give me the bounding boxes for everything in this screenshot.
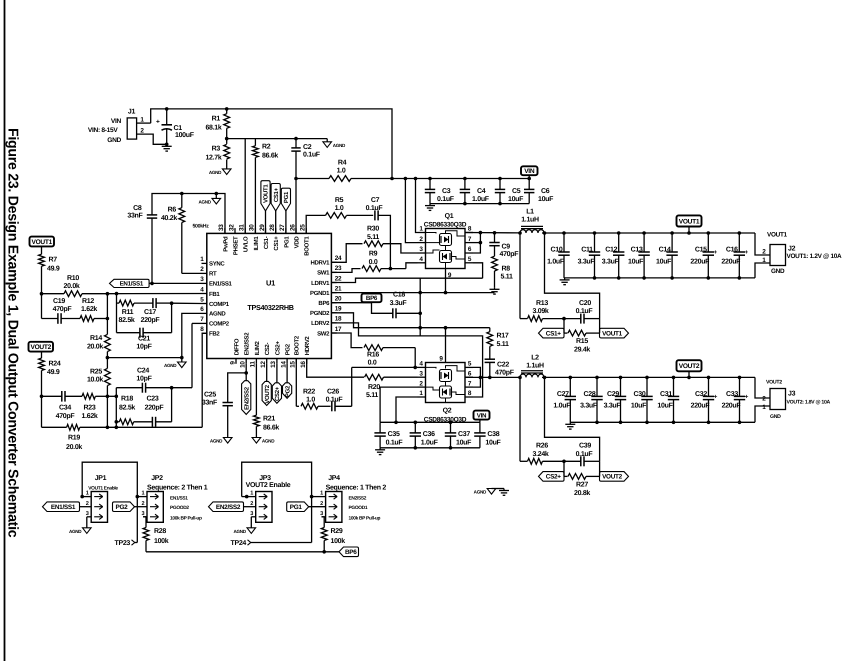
svg-text:C22: C22 (497, 362, 509, 369)
svg-text:VIN: VIN (477, 412, 487, 419)
AGND at C25 (223, 438, 232, 444)
capacitor C2 0.1uF (295, 139, 297, 148)
svg-text:29.4k: 29.4k (574, 346, 590, 354)
svg-text:AGND: AGND (209, 170, 222, 175)
svg-text:C11: C11 (581, 247, 593, 254)
svg-text:0.0: 0.0 (368, 360, 377, 367)
svg-text:33nF: 33nF (127, 213, 143, 220)
svg-text:PGOOD1: PGOOD1 (349, 505, 368, 511)
wire EN1/SS1 to pin3 (149, 282, 201, 284)
svg-text:1.1uH: 1.1uH (521, 217, 539, 224)
label BP6 (362, 294, 382, 303)
svg-text:R8: R8 (502, 265, 511, 272)
U1 pin 13 CS2+ (276, 359, 278, 364)
svg-text:C29: C29 (607, 391, 619, 398)
svg-text:C16: C16 (726, 247, 738, 254)
svg-text:R28: R28 (154, 528, 166, 535)
wire divider to comp2 side (107, 395, 116, 397)
svg-text:VOUT2: VOUT2 (31, 344, 52, 351)
svg-text:R9: R9 (369, 251, 378, 258)
AGND arrow on top net (215, 194, 217, 199)
AGND at R21 (252, 438, 261, 444)
svg-text:20: 20 (335, 296, 342, 303)
svg-text:CS2-: CS2- (264, 343, 271, 356)
capacitor C19 470pF (57, 313, 59, 324)
node C25 branch (244, 371, 248, 375)
svg-text:470pF: 470pF (495, 370, 515, 377)
svg-text:10: 10 (240, 361, 247, 368)
node R29 bottom (322, 550, 326, 554)
svg-text:20.0k: 20.0k (66, 443, 82, 451)
wire FB1 node riser (106, 294, 108, 319)
node C5 (498, 177, 502, 181)
svg-text:0.1uF: 0.1uF (576, 308, 594, 315)
svg-text:R15: R15 (576, 338, 588, 345)
svg-text:5.11: 5.11 (501, 273, 513, 280)
JP2 pin 3 (143, 516, 147, 518)
flag PG1 to PG1 (285, 211, 287, 234)
U1 pin 6 AGND (202, 312, 207, 314)
wire SW1 output row (465, 232, 520, 234)
svg-text:Sequence: 2 Then 1: Sequence: 2 Then 1 (147, 483, 208, 491)
U1 pin 3 EN1/SS1 (202, 282, 207, 284)
wire CS1+ stub (563, 319, 565, 334)
wire AGND pin6 branch (182, 313, 202, 357)
svg-text:C36: C36 (423, 431, 435, 438)
svg-text:2: 2 (141, 501, 144, 507)
flag VOUT1 to CS1- (265, 211, 267, 234)
svg-text:C21: C21 (138, 336, 150, 343)
svg-text:BP6: BP6 (345, 549, 357, 556)
wire R30 to Q1 pin3 (383, 244, 418, 253)
capacitor C14 10uF (670, 231, 674, 235)
capacitor C37 10uF (449, 421, 453, 425)
svg-text:220uF: 220uF (690, 258, 710, 265)
flag PG1 at JP4 (287, 502, 309, 512)
JP4 pin 2 (309, 506, 326, 508)
wire R20 to Q2 pin3 (384, 376, 418, 378)
svg-text:23: 23 (335, 265, 342, 272)
wire AGND row (107, 357, 181, 359)
wire BOOT2 riser (295, 359, 297, 407)
svg-text:1: 1 (250, 491, 253, 497)
connector J1 (127, 118, 136, 139)
svg-text:86.6k: 86.6k (263, 423, 279, 431)
svg-text:1: 1 (86, 491, 89, 497)
wire R9 to Q1 pin4 (381, 268, 406, 270)
svg-text:220uF: 220uF (722, 403, 742, 410)
AGND arrow mid (181, 358, 183, 362)
svg-text:470pF: 470pF (56, 413, 76, 420)
wire LDRV1 to source row (331, 278, 482, 282)
wire BOOT1 riser (306, 215, 325, 233)
svg-text:0.1uF: 0.1uF (366, 205, 384, 212)
svg-text:JP2: JP2 (151, 475, 163, 482)
U1 pin 4 FB1 (202, 293, 207, 295)
svg-text:Sequence: 1 Then 2: Sequence: 1 Then 2 (326, 483, 387, 491)
svg-text:220pF: 220pF (145, 404, 165, 411)
svg-text:18: 18 (335, 316, 342, 323)
wire rail to VIN caps (351, 178, 531, 180)
node L2 left (518, 376, 522, 380)
U1 pin 10 EN2/SS2 (245, 359, 247, 364)
svg-text:5.11: 5.11 (497, 341, 509, 348)
resistor R23 1.62k (65, 395, 82, 397)
node SW2 out (479, 376, 483, 380)
svg-text:R22: R22 (303, 389, 315, 396)
JP3 pin 3 (251, 516, 255, 518)
svg-text:5.11: 5.11 (367, 234, 379, 241)
wire LDRV2 row (331, 323, 482, 397)
wire gnd rail2 to J3 pin1 (755, 406, 770, 422)
resistor R2 86.6k (254, 139, 256, 146)
svg-text:GND: GND (770, 414, 781, 420)
AGND at C2 (323, 142, 332, 148)
resistor R8 5.11 (492, 256, 498, 271)
svg-text:11: 11 (250, 361, 257, 368)
svg-text:R16: R16 (367, 352, 379, 359)
U1 pin 33 PwPd (224, 228, 226, 233)
svg-text:BP6: BP6 (318, 300, 330, 307)
svg-text:10uF: 10uF (538, 196, 554, 203)
svg-text:1.0: 1.0 (335, 205, 344, 212)
svg-text:1.62k: 1.62k (81, 412, 97, 420)
resistor R9 0.0 (362, 266, 381, 272)
svg-text:R5: R5 (335, 197, 344, 204)
wire R4 rail (296, 178, 329, 180)
wire UVLO net (227, 138, 296, 140)
svg-text:CS2+: CS2+ (274, 341, 281, 356)
svg-text:PGND2: PGND2 (310, 310, 330, 317)
svg-text:FB2: FB2 (209, 331, 220, 338)
label VIN at Q2 (479, 420, 481, 423)
U1 pin 14 PG2 (286, 359, 288, 364)
wire Q1 pin9 down (445, 269, 447, 293)
ground at C1 (166, 144, 168, 146)
node C2 top (294, 137, 298, 141)
svg-text:3: 3 (320, 511, 323, 517)
wire BP6 pin20 (331, 302, 371, 304)
svg-text:13: 13 (270, 361, 277, 368)
svg-text:VIN: VIN (111, 118, 122, 125)
svg-text:CSD86330Q3D: CSD86330Q3D (424, 222, 467, 229)
capacitor C30 10uF (645, 376, 649, 380)
AGND to PGND net tie (492, 488, 505, 490)
svg-text:C38: C38 (487, 431, 499, 438)
node C2-VDD-R4 (294, 177, 298, 181)
node PGND2 Q2 pin9 (444, 326, 448, 330)
wire R5-C7 (347, 214, 374, 216)
svg-text:3.3uF: 3.3uF (390, 300, 408, 307)
svg-text:16: 16 (300, 361, 307, 368)
ground at bank1 (564, 278, 566, 280)
U1 pin 18 LDRV2 (331, 322, 336, 324)
resistor R12 1.62k (61, 318, 80, 320)
wire UVLO riser pin31 (244, 139, 246, 234)
svg-text:R17: R17 (497, 332, 509, 339)
svg-text:L2: L2 (531, 355, 539, 362)
svg-text:EN2/SS2: EN2/SS2 (216, 504, 241, 511)
wire VIN rail 2 (380, 421, 480, 423)
wire rail to J2 pin2 (755, 233, 770, 255)
svg-text:500kHz: 500kHz (192, 224, 209, 230)
svg-text:1.62k: 1.62k (81, 305, 97, 313)
flag EN2/SS2 at JP3 (209, 502, 244, 512)
ground at rail2 (379, 448, 381, 450)
svg-text:0.0: 0.0 (369, 259, 378, 266)
svg-text:C25: C25 (204, 391, 216, 398)
svg-text:86.6k: 86.6k (262, 152, 278, 160)
wire jog to Q1 pin4 (406, 263, 418, 269)
svg-text:CS1+: CS1+ (546, 330, 562, 337)
label VOUT1 above bank (688, 226, 690, 233)
capacitor C13 10uF (642, 231, 646, 235)
resistor R19 20.0k (42, 426, 67, 428)
U1 pin 15 BOOT2 (295, 359, 297, 364)
wire PGND riser x420 (419, 278, 421, 336)
svg-text:+: + (156, 118, 160, 125)
resistor R13 3.09k (520, 318, 527, 320)
resistor R4 1.0 (329, 176, 351, 182)
svg-text:3: 3 (86, 511, 89, 517)
U1 pin 31 UVLO (244, 228, 246, 233)
wire C26 to SW2 (335, 405, 352, 407)
node Q2 pin1 rail (394, 421, 398, 425)
transistor Q2 CSD86330Q3D body (426, 363, 466, 403)
wire BP6 to C18 (372, 303, 393, 314)
svg-text:JP1: JP1 (95, 475, 107, 482)
svg-text:1: 1 (141, 491, 144, 497)
wire VOUT2 rail (542, 376, 755, 378)
svg-text:1.0: 1.0 (337, 167, 346, 174)
wire C3-C6 bottom rail (430, 203, 529, 205)
svg-text:ILIM2: ILIM2 (254, 341, 261, 356)
resistor R14 20.0k (106, 319, 108, 335)
wire C23 riser (171, 388, 173, 422)
wire SW2 boot drop (351, 367, 353, 406)
op-amp U1 TPS40322RHB body (207, 233, 332, 358)
svg-text:C3: C3 (442, 188, 451, 195)
svg-text:EN2/SS2: EN2/SS2 (244, 332, 251, 356)
capacitor C35 0.1uF (379, 422, 381, 433)
capacitor C34 470pF (42, 395, 62, 397)
svg-text:VOUT2: VOUT2 (264, 384, 271, 403)
svg-text:J3: J3 (788, 390, 796, 397)
svg-text:C27: C27 (557, 391, 569, 398)
U1 pin 2 RT (202, 272, 207, 274)
svg-text:PG1: PG1 (283, 191, 290, 203)
svg-text:VOUT1: VOUT1 (679, 218, 700, 225)
wire Q2 pin2 feed (380, 387, 417, 422)
wire rail2 to J3 pin2 (755, 377, 770, 398)
capacitor C5 10uF (499, 179, 501, 190)
wire bank2 ground rail (570, 421, 755, 423)
node R13-C20-CS1+ (562, 317, 566, 321)
svg-text:10uF: 10uF (456, 440, 472, 447)
svg-text:29: 29 (259, 224, 266, 231)
flag PG2 at JP2 (113, 502, 135, 512)
node R16-Q2pin4 (413, 366, 417, 370)
resistor R18 82.5k (116, 421, 119, 423)
svg-text:R7: R7 (49, 256, 58, 263)
svg-text:PGOOD2: PGOOD2 (170, 505, 189, 511)
svg-text:SYNC: SYNC (209, 261, 225, 268)
svg-text:10uF: 10uF (631, 403, 647, 410)
U1 pin 32 PHSET (234, 228, 236, 233)
resistor R27 20.8k (564, 475, 568, 477)
svg-text:UVLO: UVLO (243, 236, 250, 252)
node AGND arrow tap (215, 192, 219, 196)
svg-text:1: 1 (320, 491, 323, 497)
svg-text:32: 32 (228, 224, 235, 231)
wire R6 to RT (182, 272, 202, 274)
svg-text:12: 12 (260, 361, 267, 368)
wire VOUT1 rail (542, 232, 755, 234)
svg-text:R25: R25 (90, 368, 102, 375)
capacitor C16 220uF (738, 231, 742, 235)
wire L2 right sense tap (545, 377, 600, 461)
svg-text:CS1-: CS1- (263, 236, 270, 249)
U1 pin 21 PGND1 (331, 292, 336, 294)
Q1 pin9 lead (445, 263, 447, 269)
JP2 pin 1 (137, 496, 147, 498)
svg-text:R4: R4 (338, 160, 347, 167)
node C3 (428, 177, 432, 181)
svg-text:CS1+: CS1+ (273, 236, 280, 251)
AGND at JP1 (83, 528, 92, 534)
svg-text:R21: R21 (263, 415, 275, 422)
wire source row riser to Q1 pin5 (473, 263, 483, 278)
svg-text:100uF: 100uF (175, 132, 195, 139)
svg-text:25: 25 (300, 224, 307, 231)
wire rail2 bottom (380, 447, 480, 449)
svg-text:C7: C7 (371, 197, 380, 204)
flag CS2+ (539, 472, 565, 482)
JP3 pin 2 (243, 506, 255, 508)
svg-text:VOUT1: VOUT1 (602, 330, 623, 337)
wire AGND stub at C2 (296, 138, 327, 140)
jumper JP2 Sequence 2 Then 1 (147, 492, 163, 523)
wire R13 to node (543, 318, 565, 320)
svg-text:PHSET: PHSET (232, 236, 239, 255)
JP4 pin 1 (312, 496, 326, 498)
svg-text:SW1: SW1 (317, 270, 330, 277)
Q1 internal top FET (440, 234, 452, 246)
svg-text:C14: C14 (659, 247, 671, 254)
svg-text:VOUT1 Enable: VOUT1 Enable (88, 485, 118, 491)
svg-text:R2: R2 (262, 144, 271, 151)
svg-text:C39: C39 (579, 443, 591, 450)
svg-text:LDRV2: LDRV2 (311, 320, 330, 327)
U1 pin 17 SW2 (331, 332, 336, 334)
svg-text:C18: C18 (393, 292, 405, 299)
node R14-R25 (106, 356, 110, 360)
svg-text:33nF: 33nF (202, 399, 218, 406)
U1 pin 19 PGND2 (331, 312, 336, 314)
capacitor C24 10pF (116, 387, 142, 389)
svg-text:TP23: TP23 (114, 540, 130, 547)
node PGND1-C18 riser (418, 291, 422, 295)
capacitor C38 10uF (479, 422, 481, 433)
U1 pin 26 VDD (295, 228, 297, 233)
svg-text:10uF: 10uF (508, 196, 524, 203)
node JP1 pin1 (80, 495, 84, 499)
svg-text:C19: C19 (53, 298, 65, 305)
svg-text:C35: C35 (388, 431, 400, 438)
wire gnd rail to J2 pin1 (755, 263, 770, 278)
svg-text:R20: R20 (368, 384, 380, 391)
node R19-R25col (106, 426, 110, 430)
svg-text:R13: R13 (536, 300, 548, 307)
capacitor C31 10uF (672, 376, 676, 380)
svg-text:C1: C1 (174, 125, 183, 132)
svg-text:EN1/SS1: EN1/SS1 (120, 281, 144, 288)
svg-text:J2: J2 (788, 246, 796, 253)
wire Q1 pin2 feed (405, 179, 417, 243)
svg-text:R29: R29 (331, 528, 343, 535)
svg-text:BOOT1: BOOT1 (304, 236, 311, 256)
svg-text:C33: C33 (726, 391, 738, 398)
svg-text:AGND: AGND (198, 199, 211, 204)
wire R22 to C26 (318, 405, 331, 407)
svg-text:1.1uH: 1.1uH (526, 363, 544, 370)
wire SW2 output row (465, 376, 520, 378)
wire EN2/SS2 pin10 stub (245, 364, 247, 381)
capacitor C11 3.3uF (593, 231, 597, 235)
svg-text:49.9: 49.9 (47, 369, 60, 376)
node COMP1 net branch (115, 292, 119, 296)
svg-text:BOOT2: BOOT2 (294, 335, 301, 355)
AGND at JP3 (247, 528, 256, 534)
svg-text:EN2/SS2: EN2/SS2 (243, 386, 250, 410)
wire BP6 bottom row (146, 551, 339, 553)
node COMP1 (170, 301, 174, 305)
svg-text:49.9: 49.9 (47, 266, 60, 273)
resistor R6 40.2k (181, 194, 183, 208)
flag BP6 bottom (339, 547, 359, 557)
node C4 (463, 177, 467, 181)
svg-text:19: 19 (335, 306, 342, 313)
svg-text:C30: C30 (634, 391, 646, 398)
svg-text:ILIM1: ILIM1 (253, 236, 260, 251)
wire C19 branch (41, 294, 43, 319)
capacitor C32 220uF (707, 376, 711, 380)
capacitor C15 220uF (707, 231, 711, 235)
node C6-VIN (527, 177, 531, 181)
svg-text:R11: R11 (122, 309, 134, 316)
wire Q2 pin9 up (445, 328, 447, 363)
U1 pin 29 CS1- (265, 228, 267, 233)
Q2 internal top FET (440, 370, 452, 382)
svg-text:1.0: 1.0 (306, 397, 315, 404)
Q1 pin stubs and numbers (418, 232, 426, 234)
svg-text:17: 17 (335, 326, 342, 333)
node L1 left (518, 231, 522, 235)
svg-text:PG2: PG2 (116, 504, 129, 511)
svg-text:EN1/SS1: EN1/SS1 (170, 496, 188, 502)
wire COMP1 to U1 (172, 302, 202, 304)
transistor Q1 CSD86330Q3D body (426, 229, 466, 269)
U1 pin 23 SW1 (331, 271, 336, 273)
JP2 pin 2 (135, 506, 148, 508)
svg-text:U1: U1 (266, 279, 275, 288)
svg-text:CS2+: CS2+ (546, 474, 562, 481)
flag EN1/SS1 at JP1 (43, 502, 80, 512)
svg-text:20.0k: 20.0k (63, 282, 79, 290)
resistor R30 5.11 (364, 241, 383, 247)
svg-text:R18: R18 (121, 396, 133, 403)
figure caption sidebar rule (4, 0, 6, 661)
